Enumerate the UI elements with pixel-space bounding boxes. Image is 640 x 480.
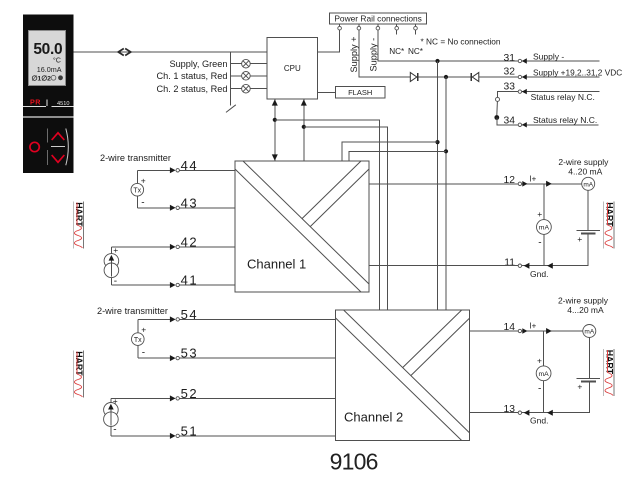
terminal 44: [137, 169, 170, 171]
wire bus B to Channel 1: [349, 151, 446, 161]
svg-text:I+: I+: [529, 174, 536, 183]
button divider vertical: [47, 129, 49, 143]
display unit 4510 body: [23, 15, 74, 174]
ok button: [30, 142, 39, 151]
svg-text:HART: HART: [605, 202, 615, 227]
junction bus B branch: [444, 149, 448, 153]
ammeter M2 ch2: [536, 366, 551, 381]
power rail pin 4 NC: [396, 24, 398, 26]
svg-text:Status relay N.C.: Status relay N.C.: [533, 115, 597, 125]
svg-text:4..20 mA: 4..20 mA: [568, 167, 602, 177]
relay blade: [496, 101, 499, 115]
wire Channel2 to terminal 13: [470, 412, 518, 414]
divider bar: [46, 99, 48, 106]
terminal 31: [518, 59, 521, 62]
wire pin1 to CPU: [318, 30, 340, 52]
svg-text:Tx: Tx: [134, 337, 142, 344]
wire terminal 34: [497, 118, 518, 125]
ammeter M2 ch1: [537, 220, 552, 235]
svg-text:16.0mA: 16.0mA: [37, 65, 62, 74]
svg-text:+: +: [113, 396, 118, 406]
branch end tick: [226, 105, 236, 113]
svg-text:Ch. 2 status, Red: Ch. 2 status, Red: [157, 84, 228, 94]
up button: [52, 133, 65, 140]
junction bus A branch: [435, 140, 439, 144]
Channel 2 converter block: [336, 310, 470, 441]
current source I1: [104, 254, 119, 269]
svg-text:CPU: CPU: [284, 64, 301, 73]
diode D1: [410, 73, 417, 82]
wire 43 to Channel 1: [180, 207, 235, 209]
terminal 11: [518, 264, 521, 267]
terminal 51: [111, 435, 170, 437]
wire bus line1 to Channel 2: [275, 120, 380, 310]
CPU to Channel1 bus arrow line 2: [303, 99, 305, 161]
svg-text:+: +: [141, 175, 146, 185]
transmitter Tx2: [132, 333, 145, 346]
svg-text:-: -: [142, 347, 145, 358]
svg-text:9106: 9106: [330, 449, 378, 475]
svg-text:Supply +: Supply +: [349, 36, 359, 72]
svg-text:Supply -: Supply -: [533, 51, 564, 61]
svg-text:HART: HART: [74, 202, 84, 227]
HART logo left ch2: [73, 351, 84, 398]
svg-text:12: 12: [504, 175, 516, 186]
loop return arrows ch2: [524, 410, 530, 416]
CPU U1: [267, 38, 318, 100]
wire Supply+ to terminal 32: [359, 30, 518, 77]
svg-text:Supply -: Supply -: [368, 38, 378, 72]
section divider line: [23, 116, 73, 118]
wire 54 to Channel 2: [180, 318, 336, 320]
svg-text:+: +: [141, 325, 146, 335]
wire M2 to return ch2: [543, 381, 545, 413]
svg-text:2-wire transmitter: 2-wire transmitter: [100, 153, 171, 163]
down button: [52, 155, 65, 162]
wire Channel1 to terminal 11: [369, 265, 518, 267]
power rail pin 1: [339, 24, 341, 26]
svg-text:mA: mA: [539, 225, 550, 232]
svg-text:33: 33: [504, 81, 516, 92]
wire battery to return ch2: [522, 381, 590, 412]
svg-text:Supply +19,2..31,2 VDC: Supply +19,2..31,2 VDC: [533, 68, 622, 78]
wire CPU to FLASH: [318, 91, 336, 93]
svg-text:2-wire supply: 2-wire supply: [558, 157, 609, 167]
lamp LED1 green: [231, 63, 242, 65]
battery B1: [577, 230, 601, 232]
svg-text:+: +: [537, 209, 542, 219]
diode D2: [472, 73, 479, 82]
wire terminal 32 external: [522, 76, 600, 78]
svg-text:2-wire transmitter: 2-wire transmitter: [97, 306, 168, 316]
wire bus A to Channel 1: [342, 142, 438, 161]
svg-text:Power Rail connections: Power Rail connections: [334, 14, 422, 24]
terminal 14: [518, 329, 521, 332]
current source I2: [104, 403, 119, 418]
svg-text:HART: HART: [74, 351, 84, 376]
svg-text:-: -: [113, 425, 116, 436]
junction on bus line 1: [273, 118, 277, 122]
svg-text:Supply, Green: Supply, Green: [169, 59, 227, 69]
loop return arrows ch1: [524, 263, 530, 269]
lamp LED3 red: [231, 88, 242, 90]
HART logo right ch1: [604, 202, 615, 249]
supply bus A vertical: [437, 61, 439, 310]
svg-text:34: 34: [504, 116, 516, 127]
wire 42 to Channel 1: [180, 246, 235, 248]
terminal 13: [518, 411, 521, 414]
divider underline: [23, 105, 46, 107]
svg-text:* NC = No connection: * NC = No connection: [421, 37, 501, 47]
Power Rail connections box: [330, 13, 427, 24]
terminal 32: [518, 75, 521, 78]
terminal 42: [111, 246, 169, 248]
svg-text:-: -: [538, 384, 541, 395]
terminal 33: [518, 90, 521, 93]
wire junction down to M2 ch2: [543, 331, 545, 366]
junction on bus line 2: [302, 125, 306, 129]
svg-text:PR: PR: [30, 98, 41, 107]
wire Channel2 to terminal 14: [470, 330, 518, 332]
terminal 12: [518, 182, 521, 185]
svg-text:4...20 mA: 4...20 mA: [567, 305, 604, 315]
wire Channel1 to terminal 12: [369, 183, 518, 185]
terminal 43: [137, 207, 170, 209]
wire terminal 33: [498, 92, 519, 98]
terminal 54: [138, 318, 170, 320]
svg-text:11: 11: [504, 257, 515, 268]
wire M2 to return: [543, 234, 545, 265]
lamp LED2 red: [231, 75, 242, 77]
terminal 53: [138, 357, 170, 359]
svg-text:13: 13: [504, 404, 516, 415]
svg-text:mA: mA: [538, 371, 549, 378]
FLASH memory: [335, 87, 385, 99]
terminal 34: [518, 123, 521, 126]
svg-text:∅1∅2: ∅1∅2: [32, 75, 52, 83]
svg-text:Ch. 1 status, Red: Ch. 1 status, Red: [157, 71, 228, 81]
lamp branch vertical wire: [230, 52, 232, 106]
svg-text:I+: I+: [529, 322, 536, 331]
terminal 52: [111, 397, 170, 399]
power rail pin 5 NC: [415, 24, 417, 26]
svg-text:HART: HART: [605, 350, 615, 375]
ammeter M1 ch1: [582, 177, 595, 190]
wire 53 to Channel 2: [180, 357, 336, 359]
display screen: [29, 31, 66, 86]
svg-text:+: +: [577, 234, 582, 244]
power rail pin 3: [377, 24, 379, 26]
wire 44 to Channel 1: [180, 169, 235, 171]
wire terminal 31 external: [522, 60, 600, 62]
svg-text:Channel 2: Channel 2: [344, 410, 403, 425]
svg-text:Gnd.: Gnd.: [530, 269, 548, 279]
svg-text:32: 32: [504, 67, 516, 78]
svg-text:mA: mA: [584, 329, 594, 336]
terminal 41: [111, 284, 169, 286]
wire M1 to battery ch2: [588, 338, 590, 379]
supply bus B vertical: [445, 77, 447, 310]
wire junction down to M2: [543, 184, 545, 220]
svg-text:Gnd.: Gnd.: [530, 416, 548, 426]
svg-text:14: 14: [504, 322, 516, 333]
ammeter M1 ch2: [583, 325, 596, 338]
loop arrow ch1 top: [546, 181, 552, 187]
wire terminal 14 to loop: [522, 330, 583, 332]
button dash: [51, 145, 65, 147]
HART logo right ch2: [604, 349, 615, 396]
Channel 1 converter block: [235, 161, 369, 292]
svg-text:2-wire supply: 2-wire supply: [558, 295, 609, 305]
battery B2: [577, 377, 600, 379]
svg-text:NC*: NC*: [408, 47, 424, 56]
wire battery to return: [522, 234, 588, 266]
button arc: [66, 129, 69, 166]
svg-text:+: +: [537, 355, 542, 365]
wire 41 to Channel 1: [180, 284, 235, 286]
svg-text:Tx: Tx: [133, 187, 141, 194]
svg-text:°C: °C: [53, 55, 61, 64]
svg-text:FLASH: FLASH: [348, 88, 372, 97]
loop arrow ch2 top: [546, 328, 552, 334]
wire display to CPU: [73, 51, 267, 53]
comm symbol on wire: [118, 49, 124, 56]
CPU to Channel1 bus arrow line 1: [274, 99, 276, 161]
svg-text:Status relay N.C.: Status relay N.C.: [531, 92, 595, 102]
power rail pin 2: [358, 24, 360, 26]
relay junction dot: [494, 115, 499, 120]
wire M1 to battery: [587, 190, 589, 230]
svg-text:mA: mA: [583, 181, 593, 188]
relay contact pole: [496, 97, 500, 101]
junction on line 31: [435, 59, 439, 63]
wire Supply- to terminal 31: [378, 30, 518, 61]
svg-text:-: -: [538, 237, 541, 248]
junction on line 32: [444, 75, 448, 79]
HART logo left ch1: [73, 202, 84, 249]
svg-text:-: -: [141, 197, 144, 208]
svg-text:+: +: [577, 382, 582, 392]
wire 51 to Channel 2: [180, 435, 336, 437]
svg-text:31: 31: [504, 53, 516, 64]
svg-text:Channel 1: Channel 1: [247, 257, 306, 272]
transmitter Tx1: [131, 183, 144, 196]
svg-text:NC*: NC*: [389, 47, 405, 56]
wire terminal 12 to loop: [522, 183, 582, 185]
wire bus line2 to Channel 2: [304, 127, 388, 310]
wire 52 to Channel 2: [180, 397, 336, 399]
